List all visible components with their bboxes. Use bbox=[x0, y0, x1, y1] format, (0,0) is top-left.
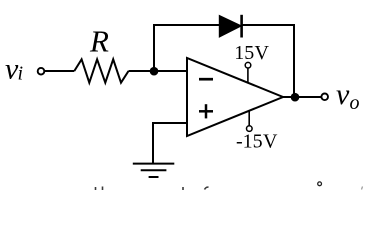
wire input terminal to resistor bbox=[45, 70, 75, 72]
node vo output terminal bbox=[321, 94, 328, 101]
svg-text:-15: -15 bbox=[236, 131, 263, 153]
svg-text:V: V bbox=[263, 131, 278, 153]
resistor R bbox=[74, 59, 128, 82]
wire op-amp output to vo terminal bbox=[283, 96, 321, 98]
node vi input terminal bbox=[38, 68, 45, 75]
wire feedback down to output node bbox=[293, 24, 295, 97]
ground bbox=[133, 164, 175, 177]
svg-text:V: V bbox=[255, 42, 270, 64]
diode D1 bbox=[219, 15, 241, 38]
wire op-amp noninverting input to ground bbox=[153, 123, 187, 163]
wire node A up to feedback branch bbox=[153, 24, 155, 71]
svg-text:v: v bbox=[336, 78, 350, 111]
caption fragment cut off at bottom edge bbox=[96, 187, 363, 191]
op-amp negative supply pin terminal bbox=[247, 126, 253, 132]
op-amp plus sign bbox=[199, 104, 213, 118]
op-amp positive supply pin stub bbox=[247, 68, 249, 83]
op-amp U1 bbox=[187, 58, 283, 136]
svg-text:o: o bbox=[350, 92, 360, 114]
wire node A to op-amp inverting input bbox=[154, 70, 187, 72]
svg-text:R: R bbox=[89, 24, 109, 59]
degree mark in caption fragment bbox=[318, 182, 322, 186]
wire resistor to node A bbox=[129, 70, 155, 72]
op-amp negative supply pin stub bbox=[248, 111, 250, 126]
node output junction bbox=[291, 93, 300, 102]
svg-text:15: 15 bbox=[234, 42, 254, 64]
op-amp minus sign bbox=[199, 78, 213, 81]
wire diode cathode to feedback corner bbox=[242, 24, 295, 26]
wire feedback top, node A to diode anode bbox=[153, 24, 220, 26]
op-amp positive supply pin terminal bbox=[245, 62, 251, 68]
node A junction bbox=[150, 67, 159, 76]
svg-text:i: i bbox=[18, 63, 24, 85]
